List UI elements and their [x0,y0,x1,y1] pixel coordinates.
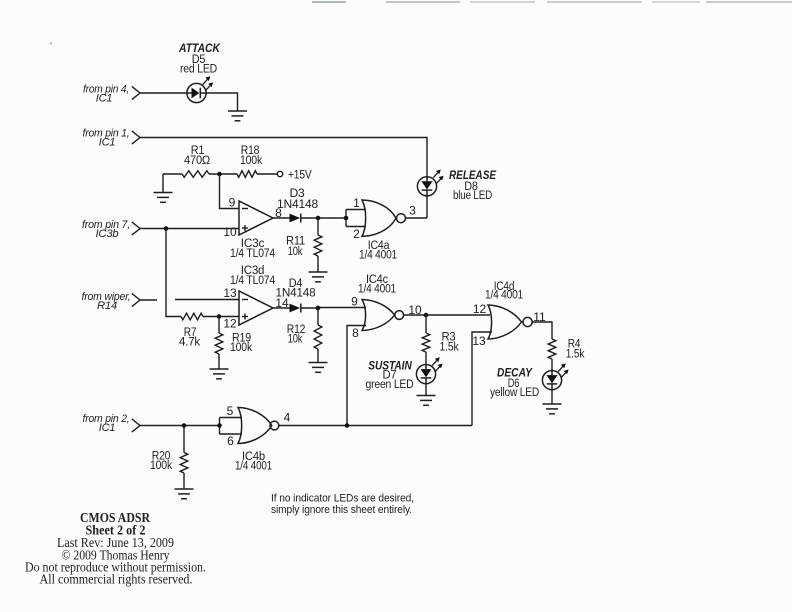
wire wiper stub [140,299,157,301]
node: from pin 7, IC3b [82,219,140,240]
svg-text:1/4 TL074: 1/4 TL074 [230,275,276,287]
note text [271,493,414,517]
scan artifact top edge [312,1,792,3]
resistor R11 [314,235,322,256]
svg-text:IC1: IC1 [96,93,113,105]
svg-text:yellow LED: yellow LED [490,387,539,399]
wire IC3d out to D4 [273,307,290,309]
svg-text:2: 2 [353,227,360,241]
svg-text:10k: 10k [288,246,303,258]
wire junction down to op-amp pin 9 [220,174,240,209]
svg-text:4.7k: 4.7k [179,337,200,349]
wire IC3c out to D3 [273,217,290,219]
label D3 1N4148 [277,188,318,211]
node: from pin 4, IC1 [83,84,140,105]
wire D6 to ground [551,390,553,404]
svg-text:1/4 4001: 1/4 4001 [358,284,396,296]
+15V terminal [277,171,282,176]
op-amp IC3c [239,201,273,235]
svg-text:red LED: red LED [180,64,217,76]
junction node pin7/R7 branch [164,226,169,231]
resistor R3 [422,333,430,352]
svg-text:All commercial rights reserved: All commercial rights reserved. [40,572,193,587]
svg-text:1.5k: 1.5k [566,349,585,361]
NOR gate IC4a [362,200,406,236]
D5 emission arrows [203,76,213,91]
svg-text:100k: 100k [150,460,172,472]
label R11 10k [286,236,305,259]
wire IC4b out rail [279,425,472,427]
resistor R20 [180,453,188,474]
node: from pin 1, IC1 [83,128,141,149]
NOR gate IC4d [488,305,532,339]
label R4 1.5k [566,339,585,361]
wire R12 top [317,308,319,325]
LED D5 (red, ATTACK) pointing right [187,83,206,102]
svg-text:3: 3 [409,204,416,218]
svg-text:100k: 100k [230,342,252,354]
wire pin4 to D5 [140,92,187,94]
diode D4 1N4148 [290,304,301,313]
svg-text:6: 6 [227,434,234,448]
svg-text:IC1: IC1 [99,137,116,149]
label R18 100k [240,145,262,167]
junction node rail to IC4c pin 8 [345,423,350,428]
svg-text:RELEASE: RELEASE [449,168,497,182]
resistor R18 [237,171,257,178]
LED D8 (blue, RELEASE) [417,177,436,196]
label R3 1.5k [440,332,459,354]
label RELEASE D8 blue LED [449,168,497,202]
svg-text:12: 12 [223,317,237,331]
svg-text:IC3b: IC3b [96,228,119,240]
wire R11 top [317,218,319,235]
svg-text:100k: 100k [240,155,262,167]
svg-text:+15V: +15V [288,170,312,182]
ground (R20) [175,489,194,499]
junction node IC4b inputs [217,423,222,428]
svg-text:1N4148: 1N4148 [277,199,318,211]
wire R20 to ground [183,473,185,489]
label R1 470ohm [184,145,211,167]
D7 emission arrows [432,357,442,372]
label R20 100k [150,451,172,473]
svg-text:blue LED: blue LED [453,190,492,202]
wire R18 to +15V terminal [257,173,277,175]
svg-text:If no indicator LEDs are desir: If no indicator LEDs are desired, [271,493,414,505]
ground (D5) [228,111,247,121]
LED D7 (green, SUSTAIN) [416,365,435,384]
label D4 1N4148 [276,278,316,300]
svg-text:R14: R14 [97,300,117,312]
ground (D7) [417,396,436,406]
label IC4c 1/4 4001 [358,274,396,296]
svg-text:5: 5 [227,404,234,418]
junction node D3/R11 [316,216,321,221]
wire IC4a out to D8 [406,217,428,219]
svg-text:1N4148: 1N4148 [276,288,316,300]
label IC3c 1/4 TL074 [230,238,276,260]
svg-text:simply ignore this sheet entir: simply ignore this sheet entirely. [271,504,412,516]
ground (R19) [210,369,229,379]
svg-text:13: 13 [472,334,486,348]
resistor R7 [181,313,203,320]
svg-text:4: 4 [284,411,291,425]
label R12 10k [287,324,306,346]
wire R12 to ground [317,349,319,363]
wire R1 left to ground [162,174,164,193]
svg-text:1: 1 [353,196,360,210]
label IC4a 1/4 4001 [359,240,397,262]
svg-text:10k: 10k [288,334,303,346]
wire R19 top [218,317,220,334]
wire D7 to ground [425,384,427,396]
wire R19 to ground [218,354,220,369]
wire D4 to IC4c pin 9 [301,307,366,310]
svg-text:9: 9 [351,295,358,309]
svg-text:1/4 4001: 1/4 4001 [235,461,272,473]
IC4a input bracket [346,210,366,227]
resistor R19 [215,333,223,354]
wire R3 to LED D7 [425,352,427,365]
wire rail up to IC4c pin 8 [347,326,366,426]
wire R7 to IC3d + input [203,316,239,318]
junction node D4/R12 [316,306,321,311]
wire pin1 to D8 [140,138,427,177]
NOR gate IC4b [238,408,279,444]
label R19 100k [230,333,252,355]
svg-text:IC1: IC1 [99,422,116,434]
node: from wiper, R14 [82,291,141,312]
label IC3d 1/4 TL074 [230,265,276,287]
junction node R3 tap [424,313,429,318]
label R7 4.7k [179,327,200,349]
ground (R1) [154,193,173,203]
wire +15V rail left segment [163,173,182,175]
wire branch down to R7 [166,229,181,317]
wire D8 to IC4a output [426,196,428,218]
wire D3 to IC4a [301,217,346,219]
label SUSTAIN D7 green LED [366,359,414,392]
label IC4d 1/4 4001 [485,281,523,302]
node: from pin 2, IC1 [83,413,141,434]
resistor R12 [314,325,322,349]
wire rail up to IC4d pin 13 [472,332,492,426]
ground (R11) [309,272,328,282]
resistor R1 [182,171,209,178]
label ATTACK D5 red LED [178,41,221,76]
svg-text:1/4 4001: 1/4 4001 [485,290,523,302]
svg-text:13: 13 [223,286,237,300]
wire R11 to ground [317,256,319,272]
svg-text:8: 8 [352,326,359,340]
svg-text:1/4 TL074: 1/4 TL074 [230,248,276,260]
op-amp IC3d [239,291,273,325]
wire pin2 to IC4b [140,425,220,427]
ground (D6) [543,404,562,414]
LED D6 (yellow, DECAY) [542,371,561,390]
svg-text:10: 10 [223,225,237,239]
svg-text:1/4 4001: 1/4 4001 [359,250,397,262]
wire R4 to LED D6 [551,359,553,371]
wire D5 to ground [206,93,237,111]
wire IC4d out to R4 [532,322,552,339]
junction node R1/R18 [217,172,222,177]
wire IC4c out to IC4d pin 12 [404,314,490,316]
D8 emission arrows [433,170,443,185]
junction node R7/R19 [217,314,222,319]
junction node R20 tap [182,423,187,428]
title block [25,510,206,587]
svg-text:470Ω: 470Ω [184,155,211,167]
junction node IC4a inputs [344,216,349,221]
wire R1 to R18 [209,173,237,175]
label DECAY D6 yellow LED [490,366,539,400]
IC4b input bracket [220,418,243,435]
svg-text:green LED: green LED [366,379,414,391]
D6 emission arrows [558,363,568,378]
ground (R12) [309,363,328,373]
svg-text:ATTACK: ATTACK [178,41,221,55]
label IC4b 1/4 4001 [235,451,272,473]
wire R3 top [425,315,427,333]
svg-text:12: 12 [473,302,487,316]
resistor R4 [548,339,556,359]
diode D3 1N4148 [290,214,301,223]
wire to IC3d - input (after crossover gap) [175,299,239,301]
scan speck [50,43,52,45]
NOR gate IC4c [362,300,404,331]
wire R20 top [183,426,185,453]
svg-text:1.5k: 1.5k [440,342,459,354]
svg-text:9: 9 [229,196,236,210]
wire pin7 to IC3c + input [140,228,239,230]
